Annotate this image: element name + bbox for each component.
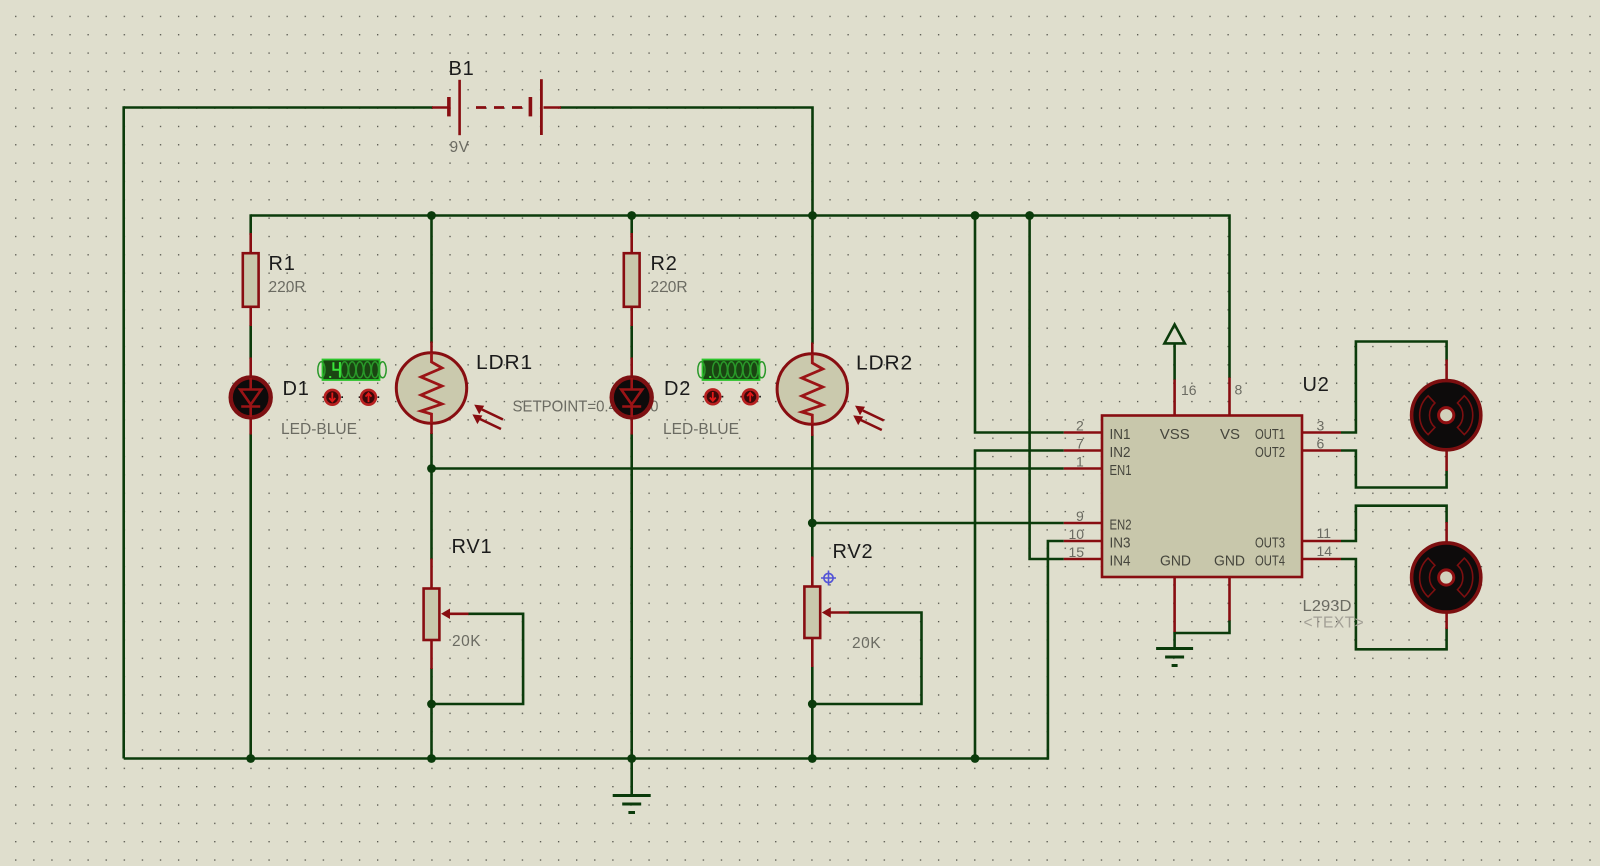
wire motor M2 bottom to OUT4 bbox=[1341, 559, 1447, 649]
pin motor M2 plus bbox=[1445, 522, 1448, 543]
ground bottom center bbox=[613, 796, 651, 813]
wire OUT3 to motor M2 top bbox=[1341, 506, 1447, 541]
svg-text:L293D: L293D bbox=[1303, 598, 1352, 615]
pin D1 anode bbox=[249, 358, 252, 378]
svg-text:OUT4: OUT4 bbox=[1255, 553, 1285, 570]
wire rail to IN1 bbox=[975, 214, 1064, 432]
svg-text:3: 3 bbox=[1317, 418, 1325, 434]
LED D1 bbox=[231, 377, 271, 417]
pin LDR1 bottom bbox=[430, 423, 433, 435]
wire IN3 to bottom bus bbox=[1048, 541, 1064, 760]
logic probe P3 down bbox=[703, 389, 724, 404]
junction bus-D2 bbox=[627, 754, 636, 763]
pin R2 top bbox=[630, 233, 633, 254]
pin RV2 top bbox=[811, 557, 814, 587]
pin U2 OUT2 pin 6 bbox=[1302, 449, 1341, 452]
svg-text:R1: R1 bbox=[269, 253, 296, 275]
svg-text:RV2: RV2 bbox=[833, 541, 874, 563]
wire D2 to bus and ground bbox=[630, 434, 633, 796]
junction rail-R2 bbox=[627, 211, 636, 220]
junction bus-D1 bbox=[246, 754, 255, 763]
junction RV2 loop bbox=[808, 700, 817, 709]
svg-text:D1: D1 bbox=[283, 378, 310, 400]
logic probe P4 up bbox=[740, 389, 761, 404]
junction node EN1 bbox=[427, 464, 436, 473]
potentiometer RV2 bbox=[804, 587, 830, 639]
junction rail-IN4 bbox=[1025, 211, 1034, 220]
junction rail-IN1 bbox=[971, 211, 980, 220]
pin R1 bottom bbox=[249, 307, 252, 327]
wire bottom bus bbox=[124, 757, 1048, 760]
resistor R2 bbox=[624, 253, 640, 307]
svg-text:R2: R2 bbox=[651, 253, 678, 275]
svg-text:EN1: EN1 bbox=[1110, 462, 1132, 479]
wire R1 to D1 bbox=[249, 325, 252, 359]
pin U2 OUT1 pin 3 bbox=[1302, 431, 1341, 434]
svg-text:LDR1: LDR1 bbox=[476, 352, 533, 374]
wire RV1 bottom bbox=[430, 668, 433, 759]
motor M2 bbox=[1412, 543, 1481, 612]
wire rail to IN4 bbox=[1030, 214, 1064, 559]
svg-text:220R: 220R bbox=[269, 279, 306, 296]
svg-text:LED-BLUE: LED-BLUE bbox=[281, 421, 357, 438]
svg-text:B1: B1 bbox=[449, 58, 475, 80]
wire EN2 line bbox=[812, 522, 1064, 525]
svg-text:6: 6 bbox=[1317, 436, 1325, 452]
wire battery left feed bbox=[124, 106, 433, 109]
svg-text:GND: GND bbox=[1160, 553, 1191, 570]
wire motor M1 bottom to OUT2 bbox=[1341, 451, 1447, 488]
junction rail-LDR1 bbox=[427, 211, 436, 220]
pin U2 IN4 pin 15 bbox=[1064, 558, 1102, 561]
wire power arrow stem bbox=[1173, 344, 1176, 381]
svg-text:20K: 20K bbox=[852, 635, 881, 652]
pin motor M1 minus bbox=[1445, 451, 1448, 472]
pin D1 cathode bbox=[249, 418, 252, 435]
pin LDR2 bottom bbox=[811, 424, 814, 436]
wire LDR2 to node EN2 bbox=[811, 435, 814, 558]
pin U2 IN1 pin 2 bbox=[1064, 431, 1102, 434]
svg-text:IN3: IN3 bbox=[1110, 535, 1131, 552]
svg-text:GND: GND bbox=[1214, 553, 1245, 570]
LDR LDR1 bbox=[396, 353, 503, 429]
LED D2 bbox=[612, 377, 652, 417]
logic probe P2 up bbox=[359, 390, 380, 405]
pin RV1 bottom bbox=[430, 640, 433, 669]
wire GND1 below chip bbox=[1173, 632, 1176, 649]
svg-text:2: 2 bbox=[1076, 418, 1084, 434]
wire battery right to rail corner bbox=[560, 108, 813, 217]
junction rail-LDR2 bbox=[808, 211, 817, 220]
wire LDR1 to node EN1 to RV1 bbox=[430, 433, 433, 560]
svg-text:IN2: IN2 bbox=[1110, 444, 1131, 461]
display 0.000000 bbox=[698, 360, 766, 381]
wire top rail to VS bbox=[251, 216, 1230, 379]
svg-text:1: 1 bbox=[1076, 454, 1084, 470]
wire RV2 bottom bbox=[811, 667, 814, 759]
wire rail to LDR2 bbox=[811, 214, 814, 344]
pin D2 anode bbox=[630, 358, 633, 378]
pin RV2 wiper bbox=[830, 611, 849, 614]
wire RV1 wiper loop bbox=[432, 614, 524, 704]
pin motor M2 minus bbox=[1445, 613, 1448, 630]
wire GND2 link bbox=[1173, 620, 1229, 633]
svg-text:VSS: VSS bbox=[1160, 426, 1190, 443]
motor M1 bbox=[1412, 381, 1481, 450]
pin U2 GND left bbox=[1173, 577, 1176, 633]
pin U2 OUT4 pin 14 bbox=[1302, 558, 1341, 561]
wire EN1 line bbox=[432, 467, 1064, 470]
junction bus-RV1 bbox=[427, 754, 436, 763]
potentiometer RV1 bbox=[424, 589, 450, 641]
LDR LDR2 bbox=[777, 354, 884, 430]
pin LDR2 top bbox=[811, 343, 814, 355]
wire OUT1 to motor M1 top bbox=[1341, 342, 1447, 433]
wire rail to R2 bbox=[630, 214, 633, 235]
ground under U2 bbox=[1156, 649, 1193, 666]
pin LDR1 top bbox=[430, 342, 433, 354]
svg-text:OUT1: OUT1 bbox=[1255, 426, 1285, 443]
svg-text:LED-BLUE: LED-BLUE bbox=[663, 421, 739, 438]
svg-text:7: 7 bbox=[1076, 436, 1084, 452]
wire rail to LDR1 bbox=[430, 214, 433, 343]
svg-text:U2: U2 bbox=[1303, 374, 1330, 396]
pin U2 GND right bbox=[1228, 577, 1231, 621]
junction bus-IN2 bbox=[971, 754, 980, 763]
svg-text:14: 14 bbox=[1317, 543, 1333, 559]
svg-text:OUT2: OUT2 bbox=[1255, 444, 1285, 461]
svg-text:20K: 20K bbox=[452, 633, 481, 650]
pin U2 OUT3 pin 11 bbox=[1302, 540, 1341, 543]
wire rail to R1 bbox=[249, 214, 252, 235]
logic probe P1 down bbox=[323, 390, 344, 405]
pin D2 cathode bbox=[630, 418, 633, 435]
svg-text:220R: 220R bbox=[651, 279, 688, 296]
pin U2 VSS pin 16 bbox=[1173, 380, 1176, 417]
origin marker RV2 bbox=[821, 571, 836, 586]
pin battery left bbox=[432, 106, 448, 109]
junction node EN2 bbox=[808, 519, 817, 528]
svg-text:9V: 9V bbox=[450, 139, 470, 156]
pin U2 IN3 pin 10 bbox=[1064, 540, 1102, 543]
power arrow bbox=[1164, 325, 1184, 344]
junction RV1 loop bbox=[427, 700, 436, 709]
junction bus-RV2 bbox=[808, 754, 817, 763]
svg-text:10: 10 bbox=[1069, 526, 1085, 542]
pin R2 bottom bbox=[630, 307, 633, 327]
svg-text:D2: D2 bbox=[664, 378, 691, 400]
svg-text:EN2: EN2 bbox=[1110, 517, 1132, 534]
svg-text:15: 15 bbox=[1069, 544, 1085, 560]
pin U2 VS pin 8 bbox=[1228, 378, 1231, 417]
svg-text:RV1: RV1 bbox=[452, 536, 493, 558]
pin RV1 wiper bbox=[449, 612, 469, 615]
wire R2 to D2 bbox=[630, 325, 633, 359]
svg-text:8: 8 bbox=[1235, 382, 1243, 398]
svg-text:IN4: IN4 bbox=[1110, 553, 1131, 570]
pin R1 top bbox=[249, 233, 252, 254]
svg-text:IN1: IN1 bbox=[1110, 426, 1131, 443]
battery B1 bbox=[447, 79, 543, 135]
pin U2 EN2 pin 9 bbox=[1064, 522, 1102, 525]
svg-text:11: 11 bbox=[1317, 525, 1332, 541]
svg-text:OUT3: OUT3 bbox=[1255, 535, 1285, 552]
svg-text:16: 16 bbox=[1181, 382, 1197, 398]
pin motor M1 plus bbox=[1445, 360, 1448, 381]
wire left bus vertical bbox=[122, 106, 125, 758]
pin U2 EN1 pin 1 bbox=[1064, 467, 1102, 470]
display 0.400000 bbox=[318, 360, 386, 381]
resistor R1 bbox=[243, 253, 259, 307]
pin RV1 top bbox=[430, 559, 433, 589]
wire IN2 to bottom bus bbox=[975, 451, 1064, 759]
svg-text:LDR2: LDR2 bbox=[856, 353, 913, 375]
svg-text:<TEXT>: <TEXT> bbox=[1304, 615, 1365, 632]
op-amp U2 body L293D bbox=[1102, 416, 1302, 578]
pin U2 IN2 pin 7 bbox=[1064, 449, 1102, 452]
wire RV2 wiper loop bbox=[812, 613, 921, 705]
svg-text:9: 9 bbox=[1076, 508, 1084, 524]
pin battery right bbox=[544, 106, 562, 109]
svg-text:VS: VS bbox=[1220, 426, 1240, 443]
pin RV2 bottom bbox=[811, 638, 814, 667]
wire D1 to bottom bus bbox=[249, 434, 252, 759]
